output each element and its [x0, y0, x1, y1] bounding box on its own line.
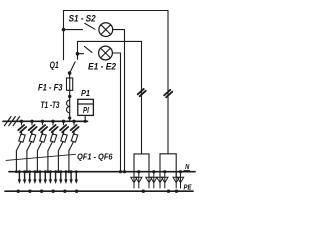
- switch S2: [85, 46, 93, 52]
- bus phase distribution: [3, 120, 88, 122]
- outgoing group arrows on N bus: [18, 170, 78, 184]
- wire through fuse: [69, 78, 71, 96]
- wire split1 right leg: [148, 154, 150, 177]
- wire S1 branch: [64, 29, 83, 31]
- node CT to bus: [68, 116, 71, 119]
- wire split1 left leg: [133, 154, 135, 177]
- lamp E1: [99, 23, 113, 37]
- wire vertical lamp group 1 feeder: [141, 41, 143, 153]
- svg-text:T1 -T3: T1 -T3: [41, 100, 60, 110]
- switch S1: [85, 23, 95, 29]
- leader line QF label: [6, 154, 76, 160]
- wire S2 branch stub: [78, 53, 84, 55]
- bus PE: [5, 190, 193, 192]
- node lamp E1 return on N: [123, 170, 126, 173]
- node PE dots: [17, 190, 179, 193]
- node S1 branch junction: [62, 28, 66, 32]
- meter P1 box: [78, 99, 94, 115]
- svg-text:PE: PE: [184, 185, 192, 192]
- wire split2 right leg: [175, 154, 177, 177]
- node lamp E2 return on N: [119, 170, 122, 173]
- group split 1: [134, 153, 149, 155]
- node N taps: [137, 170, 140, 173]
- fuse F1-F3: [67, 78, 73, 90]
- lamp E2: [99, 46, 113, 60]
- node feeder bottoms on N: [15, 170, 70, 173]
- break mark on right vertical: [164, 90, 172, 97]
- svg-text:F1 - F3: F1 - F3: [38, 82, 63, 92]
- wire main vertical feed: [63, 11, 65, 60]
- svg-text:PI: PI: [83, 105, 89, 115]
- outgoing lamp lines with arrows: [131, 170, 184, 188]
- wire split2 left leg: [159, 154, 161, 177]
- svg-text:P1: P1: [81, 89, 90, 98]
- group split 2: [160, 153, 176, 155]
- wire top horizontal: [64, 10, 169, 12]
- svg-text:Q1: Q1: [50, 60, 59, 70]
- wire lamp E1 output: [113, 29, 125, 31]
- node Q1 pivot: [68, 71, 72, 75]
- wire vertical from lamp E2 down to N bus: [120, 53, 122, 172]
- wire meter to bus: [84, 115, 86, 121]
- wire right vertical from top to lamp group split: [167, 11, 169, 154]
- break mark on lamp group 1 feeder: [138, 89, 146, 96]
- current transformer T1-T3: [69, 97, 71, 100]
- node S2 branch junction: [76, 52, 80, 56]
- wire Q1 to fuse: [69, 73, 71, 78]
- wire E1 box top horizontal: [78, 40, 142, 42]
- svg-text:S1 - S2: S1 - S2: [69, 14, 97, 24]
- underline N: [184, 169, 191, 171]
- node fuse output: [68, 95, 71, 98]
- circuit breakers QF1-QF6: [6, 120, 79, 172]
- wire vertical from lamp E1 down to N bus: [124, 30, 126, 172]
- svg-text:E1 - E2: E1 - E2: [88, 61, 116, 71]
- bus N: [9, 171, 195, 173]
- switch Q1: [70, 62, 76, 73]
- node meter to bus: [84, 120, 87, 123]
- svg-text:QF1 - QF6: QF1 - QF6: [77, 152, 113, 162]
- multiwire slashes on phase bus: [5, 117, 20, 126]
- wire lamp E2 output: [112, 52, 120, 54]
- wire E1 box left vertical: [77, 41, 79, 59]
